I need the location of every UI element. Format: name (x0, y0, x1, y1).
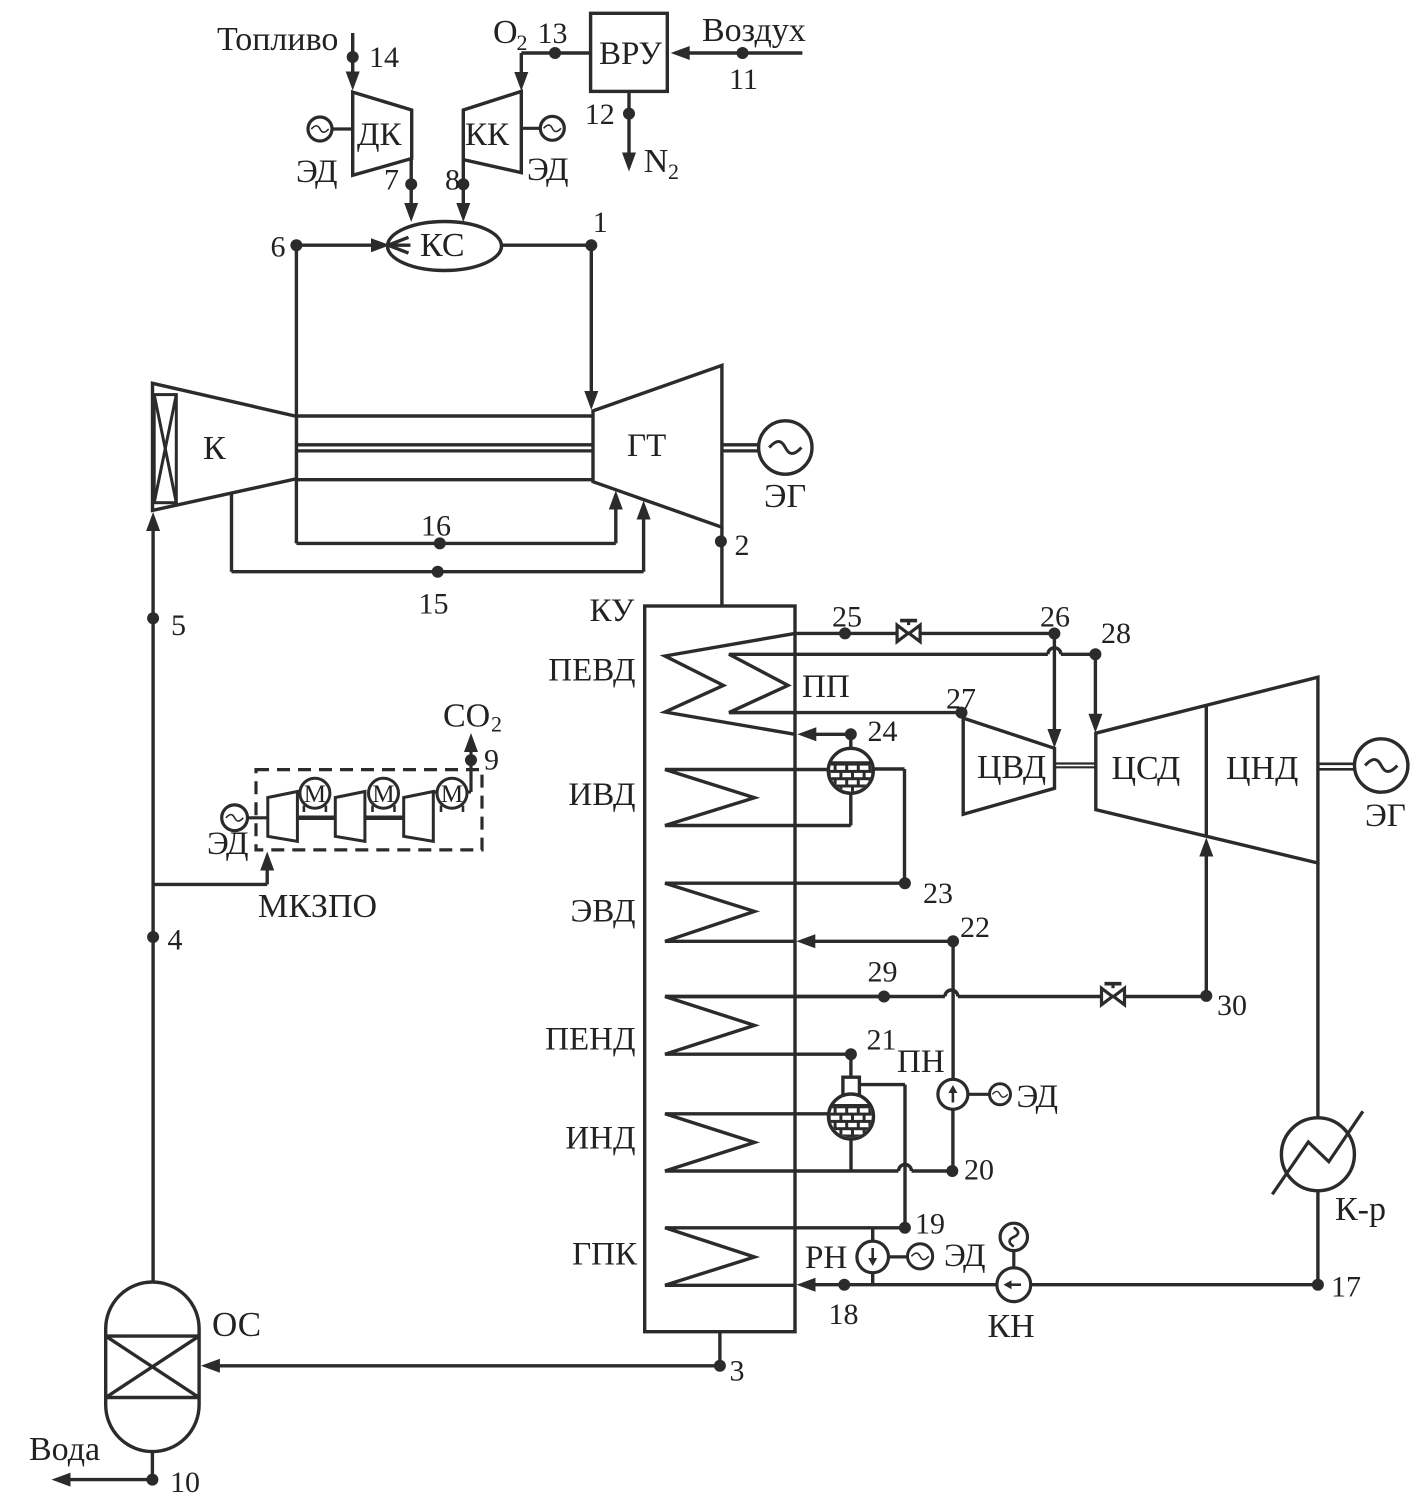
svg-text:ЭД: ЭД (296, 154, 338, 190)
svg-text:8: 8 (445, 164, 460, 197)
svg-text:ОС: ОС (212, 1305, 261, 1344)
svg-text:6: 6 (271, 231, 286, 264)
svg-text:ДК: ДК (357, 117, 403, 153)
svg-text:19: 19 (915, 1208, 945, 1241)
svg-text:2: 2 (517, 30, 528, 55)
svg-text:30: 30 (1217, 989, 1247, 1022)
svg-text:14: 14 (369, 41, 399, 74)
svg-text:15: 15 (419, 588, 449, 621)
svg-text:1: 1 (593, 206, 608, 239)
svg-text:КН: КН (988, 1308, 1035, 1345)
svg-text:ЭД: ЭД (207, 826, 249, 862)
svg-text:2: 2 (735, 529, 750, 562)
svg-text:11: 11 (729, 63, 758, 96)
svg-text:ЭД: ЭД (944, 1238, 986, 1274)
svg-text:ПЕВД: ПЕВД (548, 653, 635, 689)
svg-text:ПЕНД: ПЕНД (545, 1022, 635, 1058)
svg-text:29: 29 (868, 956, 898, 989)
svg-text:ЭГ: ЭГ (764, 478, 806, 515)
svg-text:2: 2 (491, 712, 502, 737)
svg-text:Топливо: Топливо (217, 21, 338, 58)
svg-text:22: 22 (960, 911, 990, 944)
svg-text:Воздух: Воздух (702, 12, 806, 49)
svg-text:ГПК: ГПК (572, 1237, 638, 1273)
svg-text:ЦВД: ЦВД (977, 749, 1046, 786)
svg-text:ПН: ПН (897, 1044, 945, 1080)
svg-text:ПП: ПП (802, 669, 850, 705)
svg-text:18: 18 (829, 1298, 859, 1331)
svg-text:М: М (372, 781, 394, 808)
svg-text:МКЗПО: МКЗПО (258, 888, 377, 925)
svg-text:21: 21 (867, 1024, 897, 1057)
svg-text:ЦНД: ЦНД (1226, 750, 1298, 787)
svg-text:ВРУ: ВРУ (599, 36, 663, 72)
svg-text:O: O (493, 14, 518, 51)
svg-text:13: 13 (538, 17, 568, 50)
svg-text:РН: РН (805, 1240, 847, 1276)
svg-text:10: 10 (170, 1466, 200, 1499)
svg-text:ЭВД: ЭВД (570, 894, 635, 930)
svg-text:ИНД: ИНД (565, 1121, 635, 1157)
svg-text:Вода: Вода (29, 1431, 100, 1468)
svg-text:N: N (644, 143, 669, 180)
svg-text:ЭД: ЭД (527, 152, 569, 188)
svg-text:ЭД: ЭД (1017, 1079, 1059, 1115)
svg-text:23: 23 (923, 877, 953, 910)
svg-text:27: 27 (946, 683, 976, 716)
svg-text:12: 12 (585, 98, 615, 131)
svg-text:М: М (441, 781, 463, 808)
svg-text:ГТ: ГТ (627, 428, 666, 464)
svg-text:2: 2 (668, 159, 679, 184)
svg-text:24: 24 (868, 715, 898, 748)
svg-text:16: 16 (421, 510, 451, 543)
svg-text:5: 5 (171, 609, 186, 642)
svg-text:М: М (304, 781, 326, 808)
svg-text:КУ: КУ (590, 593, 635, 629)
svg-text:КС: КС (420, 227, 465, 264)
svg-text:КК: КК (465, 117, 510, 153)
svg-text:ИВД: ИВД (568, 777, 635, 813)
svg-text:25: 25 (832, 601, 862, 634)
svg-text:ЭГ: ЭГ (1365, 798, 1406, 834)
svg-text:7: 7 (384, 164, 399, 197)
svg-text:26: 26 (1040, 601, 1070, 634)
svg-text:ЦСД: ЦСД (1112, 750, 1181, 787)
svg-text:17: 17 (1331, 1271, 1361, 1304)
svg-text:3: 3 (730, 1355, 745, 1388)
svg-text:28: 28 (1101, 617, 1131, 650)
svg-text:CO: CO (443, 698, 490, 735)
svg-text:К-р: К-р (1335, 1191, 1386, 1228)
svg-text:20: 20 (964, 1154, 994, 1187)
svg-text:К: К (203, 430, 226, 467)
svg-text:9: 9 (484, 744, 499, 777)
svg-text:4: 4 (168, 924, 183, 957)
